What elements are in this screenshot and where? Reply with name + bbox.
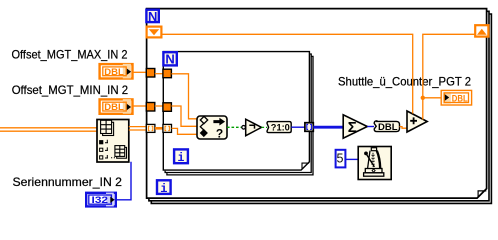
- wait until next ms multiple node (metronome): [358, 147, 391, 180]
- wire I32 to reshape node: [115, 162, 131, 200]
- control terminal I32: [86, 193, 116, 207]
- wire conversion to add node: [400, 127, 408, 129]
- outer tunnel row3 (array, auto-indexing): [146, 124, 155, 132]
- outer loop count terminal N: [146, 9, 158, 24]
- junction dot: [421, 96, 425, 100]
- svg-text:?: ?: [216, 127, 223, 141]
- wire 1D array between tunnels row3: [155, 127, 163, 130]
- wire 2D array into reshape node: [0, 128, 97, 131]
- right shift register (up arrow): [475, 25, 488, 36]
- svg-text:Shuttle_ü_Counter_PGT 2: Shuttle_ü_Counter_PGT 2: [338, 75, 471, 89]
- boolean to (0,1) node ?1:0: [267, 122, 291, 133]
- svg-text:DBL: DBL: [378, 122, 398, 133]
- svg-text:?1:0: ?1:0: [271, 122, 290, 132]
- svg-text:DBL: DBL: [104, 102, 124, 113]
- svg-text:Seriennummer_IN 2: Seriennummer_IN 2: [13, 175, 123, 189]
- svg-text:Σ: Σ: [348, 119, 357, 136]
- outer tunnel row1 (MAX): [146, 69, 155, 78]
- svg-text:Offset_MGT_MIN_IN 2: Offset_MGT_MIN_IN 2: [12, 83, 129, 97]
- wire MAX control to outer tunnel: [133, 71, 147, 73]
- wire MAX inside inner loop: [171, 74, 197, 119]
- wire element inside inner loop: [172, 128, 198, 134]
- wire MIN inside inner loop: [171, 106, 197, 126]
- integer wire to inner tunnel: [291, 126, 304, 128]
- to double precision conversion node: [374, 121, 399, 133]
- wire MIN control to outer tunnel: [133, 105, 147, 107]
- reshape array node: [97, 120, 129, 163]
- svg-text:N: N: [148, 9, 157, 24]
- wire sum to DBL conversion: [367, 126, 374, 128]
- svg-text:DBL: DBL: [104, 67, 124, 78]
- wire between tunnels row1: [155, 73, 163, 75]
- inner for loop border (stacked frames): [163, 52, 313, 175]
- outer loop iteration terminal i: [157, 180, 171, 196]
- svg-text:I32: I32: [92, 195, 109, 206]
- inner loop output tunnel (auto-indexing): [305, 123, 313, 132]
- svg-text:i: i: [160, 182, 167, 196]
- wire branch to indicator: [423, 97, 441, 99]
- svg-text:N: N: [165, 52, 174, 67]
- control terminal DBL (MIN): [100, 99, 133, 114]
- outer for loop border (stacked frames): [147, 9, 492, 204]
- wire between tunnels row2: [155, 105, 163, 107]
- add node +: [407, 111, 427, 132]
- svg-text:i: i: [178, 152, 185, 165]
- inner loop count terminal N: [163, 52, 176, 67]
- NOT node: [242, 119, 262, 136]
- wire 2D array reshape to outer tunnel: [129, 127, 146, 130]
- wire 5 to wait node: [346, 158, 358, 160]
- left shift register (down arrow): [147, 27, 162, 38]
- boolean wire (dashed green) to ?1:0: [262, 126, 268, 128]
- svg-text:DBL: DBL: [452, 93, 468, 104]
- boolean wire (dashed green) to NOT: [227, 126, 242, 128]
- inner tunnel row2 (MIN): [163, 103, 172, 112]
- indicator terminal DBL (Shuttle counter): [441, 90, 471, 105]
- wire add output up to right SR: [423, 34, 475, 119]
- add array elements node (sigma): [343, 115, 367, 138]
- in range and coerce node: [197, 116, 227, 141]
- inner tunnel row1 (MAX): [163, 69, 172, 78]
- numeric constant 5: [336, 150, 346, 168]
- inner loop iteration terminal i: [174, 149, 188, 165]
- svg-text:5: 5: [337, 152, 344, 166]
- inner tunnel row3 (element, auto-indexing): [163, 124, 172, 132]
- svg-text:Offset_MGT_MAX_IN 2: Offset_MGT_MAX_IN 2: [12, 48, 128, 62]
- control terminal DBL (MAX): [100, 64, 133, 79]
- thick array wire tunnel to sum: [313, 126, 343, 129]
- wire shift register loop: left SR to add input: [162, 34, 413, 113]
- outer tunnel row2 (MIN): [146, 103, 155, 112]
